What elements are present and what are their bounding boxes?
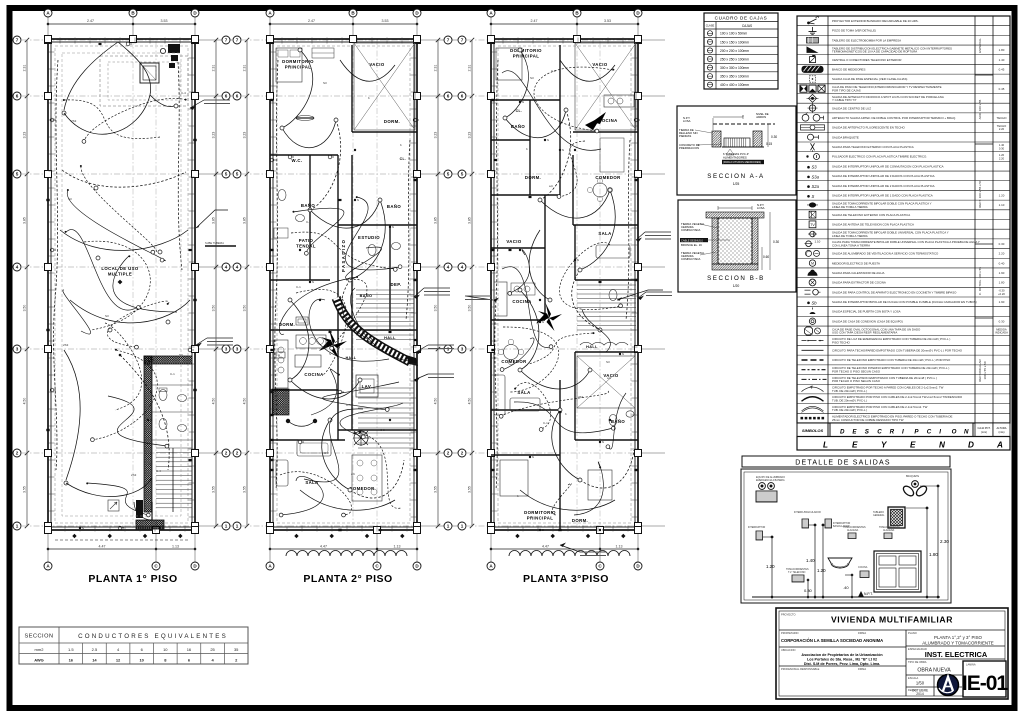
switch symbol (354, 199, 356, 201)
dining table plan2 (352, 455, 382, 501)
svg-text:CAJA POT.: CAJA POT. (978, 426, 991, 430)
mid-left grid bubbles (222, 36, 230, 44)
stair treads plan3 (577, 284, 636, 286)
svg-text:PROFESIONAL RESPONSABLE: PROFESIONAL RESPONSABLE (781, 667, 820, 671)
callout black arrow p3 (592, 112, 606, 124)
svg-text:3.53: 3.53 (161, 19, 168, 23)
stair treads plan2 lower (358, 387, 414, 389)
svg-text:0.45: 0.45 (999, 67, 1005, 71)
svg-text:C-2: C-2 (551, 69, 556, 73)
svg-text:I: I (902, 429, 904, 436)
svg-text:POR TECHO O PISO SEGUN CASO: POR TECHO O PISO SEGUN CASO (832, 379, 881, 383)
wire (332, 279, 367, 348)
svg-text:C: C (927, 429, 932, 436)
svg-text:LAMINA: LAMINA (966, 663, 976, 667)
svg-text:2.47: 2.47 (308, 19, 315, 23)
svg-text:0.15: 0.15 (766, 142, 772, 146)
lavatorio fixture (828, 558, 852, 568)
svg-text:3: 3 (447, 347, 450, 352)
svg-text:1.13: 1.13 (394, 545, 401, 549)
node (549, 345, 553, 349)
svg-text:BANCO DE MEDIDORES: BANCO DE MEDIDORES (832, 67, 865, 71)
exterior wall outline (270, 39, 417, 530)
wall lamp symbol (188, 348, 192, 352)
svg-text:VACIO: VACIO (506, 239, 522, 244)
dimension line top (48, 23, 195, 25)
legend row 31 bell (797, 315, 1010, 317)
wall lamp symbol (328, 155, 332, 159)
grid column axis (599, 39, 601, 530)
switch symbol (619, 353, 621, 355)
svg-text:USO CON TAPA CIEGA RESP. REGLA: USO CON TAPA CIEGA RESP. REGLAMENTARIA (832, 331, 897, 335)
svg-text:10: 10 (163, 647, 168, 652)
svg-text:S3a: S3a (812, 174, 820, 179)
junction dot (338, 374, 340, 376)
node (64, 481, 68, 485)
svg-text:SECCION B-B: SECCION B-B (707, 275, 765, 282)
svg-text:SALIDA PARA EXTRACTOR DE COCIN: SALIDA PARA EXTRACTOR DE COCINA (832, 281, 886, 285)
wire (515, 383, 551, 429)
wc fixtures plan2 (278, 190, 286, 201)
wire (495, 60, 498, 490)
callout note p2 right b (416, 345, 428, 352)
wire (503, 327, 559, 392)
node (304, 251, 308, 255)
svg-text:LOSA: LOSA (683, 119, 691, 123)
node (538, 198, 542, 202)
svg-text:4.50: 4.50 (243, 398, 247, 405)
svg-text:4: 4 (225, 265, 228, 270)
svg-text:1: 1 (225, 524, 228, 529)
title block outer (776, 608, 1008, 699)
wire (300, 490, 395, 510)
node (280, 126, 284, 130)
svg-text:EMERGENCIA A BATERIA: EMERGENCIA A BATERIA (756, 479, 785, 482)
braquete fixture (912, 481, 919, 488)
junction dot (612, 69, 614, 71)
beds plan3 bottom (500, 460, 528, 496)
svg-text:2.30: 2.30 (940, 539, 949, 544)
svg-text:3.55: 3.55 (434, 486, 438, 493)
switch symbol (599, 529, 601, 531)
svg-text:D: D (840, 429, 845, 436)
svg-text:VIVIENDA MULTIFAMILIAR: VIVIENDA MULTIFAMILIAR (831, 615, 953, 625)
svg-text:2S3: 2S3 (578, 395, 584, 399)
svg-text:PROYECTOR EXTERIOR BLINDADO RE: PROYECTOR EXTERIOR BLINDADO RECARGABLE D… (832, 19, 919, 23)
wire (108, 396, 167, 446)
wall lamp symbol (118, 526, 122, 530)
svg-text:4.47: 4.47 (99, 545, 106, 549)
svg-text:16: 16 (187, 647, 192, 652)
stair treads plan2 upper (356, 289, 414, 291)
svg-text:2S3: 2S3 (131, 473, 137, 477)
svg-text:25: 25 (210, 647, 215, 652)
svg-text:CENTRAL O CONECTORES TELEFONO: CENTRAL O CONECTORES TELEFONO EXTERIOR (832, 58, 902, 62)
svg-text:FIRMA: FIRMA (858, 631, 866, 635)
grid row axis 2 (467, 452, 638, 454)
legend row 11 2circ (797, 122, 1010, 124)
wire (293, 208, 344, 253)
wire (310, 120, 341, 210)
svg-text:3.55: 3.55 (243, 486, 247, 493)
svg-text:N: N (964, 429, 969, 436)
svg-text:10: 10 (139, 658, 144, 663)
legend row 26 med (797, 267, 1010, 269)
svg-text:1: 1 (16, 524, 19, 529)
svg-text:TUB. DE 20mmØ ( PVC-L ): TUB. DE 20mmØ ( PVC-L ) (832, 408, 867, 412)
node (578, 268, 582, 272)
svg-text:1.10: 1.10 (815, 240, 821, 244)
svg-text:S: S (522, 100, 524, 104)
svg-text:Asociacion de Propietarios de: Asociacion de Propietarios de la Urbaniz… (801, 653, 883, 657)
svg-text:2S3: 2S3 (71, 119, 77, 123)
svg-text:4: 4 (461, 265, 464, 270)
grid bubble A bottom (266, 562, 274, 570)
callout note p3 right a (636, 232, 645, 240)
legend row 37 ltel2 (797, 374, 1010, 376)
svg-text:AWG: AWG (34, 658, 44, 663)
legend simbolos header (797, 423, 828, 437)
legend row 29 ctrl (797, 296, 1010, 298)
svg-text:BAÑO: BAÑO (611, 419, 626, 424)
svg-text:SUBE TUBERIA: SUBE TUBERIA (205, 241, 224, 245)
legend row 24 tomh (797, 248, 1010, 250)
seccion B-B detail (678, 200, 796, 292)
svg-text:1.13: 1.13 (172, 545, 179, 549)
svg-text:S3: S3 (530, 76, 534, 80)
wire (580, 190, 615, 270)
svg-text:JARDIN: JARDIN (756, 115, 766, 119)
wire (282, 50, 313, 128)
svg-text:MEDIDA: MEDIDA (996, 327, 1007, 331)
wall window ticks (271, 51, 277, 53)
node (518, 288, 522, 292)
grid column axis (576, 39, 578, 530)
grid row axis 3 (242, 348, 417, 350)
node (82, 140, 86, 144)
legend row 22 tv (797, 228, 1010, 230)
svg-text:+0.20: +0.20 (998, 292, 1005, 296)
svg-text:S3: S3 (606, 360, 610, 364)
grid axis line (269, 17, 271, 39)
switch symbol (599, 441, 601, 443)
svg-text:MEDIDOR ELECTRICO DE PUESTA: MEDIDOR ELECTRICO DE PUESTA (832, 261, 880, 265)
svg-text:2.31: 2.31 (468, 65, 472, 72)
svg-text:1.20: 1.20 (999, 193, 1005, 197)
svg-text:ESCALA: ESCALA (908, 676, 919, 680)
node (611, 426, 615, 430)
wire (574, 462, 603, 515)
proyector switch (825, 519, 832, 528)
svg-text:SALIDA DE ARTEFACTO FLUORESCEN: SALIDA DE ARTEFACTO FLUORESCENTE EN TECH… (832, 126, 906, 130)
svg-text:3.50: 3.50 (434, 305, 438, 312)
grid row axis 4 (467, 266, 638, 268)
node (558, 408, 562, 412)
dimension line bottom (491, 548, 638, 550)
bath fixtures plan3 (609, 415, 617, 426)
wire (64, 100, 160, 139)
wire (304, 409, 363, 482)
svg-text:2.31: 2.31 (23, 65, 27, 72)
wire (342, 280, 370, 340)
svg-text:CLASE: CLASE (706, 24, 715, 28)
toilet plan3 (609, 290, 617, 301)
grid row axis 7 (242, 39, 417, 41)
outlet (491, 349, 494, 351)
callout note p3 left (465, 296, 493, 300)
grid bubble D top (191, 9, 199, 17)
legend leyenda title (797, 437, 1010, 451)
svg-text:2014: 2014 (916, 692, 924, 696)
wire (62, 170, 186, 187)
node (288, 298, 292, 302)
node (588, 368, 592, 372)
svg-text:FIRMA: FIRMA (858, 667, 866, 671)
switch symbol (359, 431, 361, 433)
grid axis line (576, 17, 578, 39)
wire (502, 267, 551, 348)
svg-text:7: 7 (447, 38, 450, 43)
outlet (413, 279, 416, 281)
svg-text:.40: .40 (843, 585, 849, 590)
dim chain between plans 2-3 (437, 40, 439, 526)
node (508, 291, 512, 295)
grid row axis 5 (22, 173, 195, 175)
node (548, 298, 552, 302)
floor outlet markers below plan (515, 534, 519, 538)
svg-text:POR TIPO DE CAJAS: POR TIPO DE CAJAS (832, 88, 861, 92)
svg-text:100 x 100 x 50mm: 100 x 100 x 50mm (720, 32, 747, 36)
kitchen counter plan3 (604, 95, 634, 107)
dimension line bottom (270, 548, 417, 550)
emergency light fixture (759, 483, 766, 490)
legend row 2 gnd (797, 34, 1010, 36)
toilet fixture 2 (159, 419, 167, 430)
svg-text:2S3: 2S3 (63, 343, 69, 347)
grid bubble D top (413, 9, 421, 17)
svg-text:POZO DE TOMA (VER DETALLE): POZO DE TOMA (VER DETALLE) (832, 29, 876, 33)
svg-text:BAÑO: BAÑO (387, 204, 402, 209)
outlet symbol (509, 249, 512, 251)
wire (105, 323, 142, 410)
vacio box plan3 mid (577, 356, 635, 408)
svg-text:3.50: 3.50 (23, 305, 27, 312)
svg-text:S: S (602, 440, 604, 444)
dining plan3 (593, 183, 607, 197)
svg-text:mm2: mm2 (35, 647, 45, 652)
svg-text:ALTURA: ALTURA (996, 426, 1006, 430)
outlet (491, 249, 494, 251)
grid axis line (490, 17, 492, 39)
wire (290, 380, 360, 399)
wire (282, 120, 336, 148)
svg-text:SALIDA PARA CALENTADOR DE AGUA: SALIDA PARA CALENTADOR DE AGUA (832, 271, 884, 275)
svg-text:Los Portales de Sta. Rosa , Mz: Los Portales de Sta. Rosa , Mz "B" Lt 02 (807, 658, 877, 662)
svg-text:2: 2 (16, 451, 19, 456)
wire (502, 338, 534, 370)
outlet (270, 349, 273, 351)
stair arc plan3 (580, 342, 628, 345)
wall window ticks top-bottom (502, 38, 504, 44)
svg-text:SALIDA DE INTERRUPTOR BIPOLAR: SALIDA DE INTERRUPTOR BIPOLAR DE DUCHA C… (832, 300, 977, 304)
svg-text:E: E (852, 441, 858, 450)
svg-text:1.90: 1.90 (999, 300, 1005, 304)
wire (64, 42, 118, 110)
grid column axis (352, 39, 354, 530)
svg-text:SALIDA BRAQUETE: SALIDA BRAQUETE (832, 135, 859, 139)
svg-text:CORPORACIÓN LA SEMILLA SOCIEDA: CORPORACIÓN LA SEMILLA SOCIEDAD ANONIMA (781, 638, 883, 643)
grid column axis (47, 39, 49, 530)
svg-text:COCINA: COCINA (512, 299, 531, 304)
svg-text:3.50: 3.50 (243, 305, 247, 312)
switch symbol (79, 527, 81, 529)
wire (63, 290, 91, 334)
grid row axis 4 (22, 266, 195, 268)
svg-text:5: 5 (461, 172, 464, 177)
wire (346, 247, 382, 279)
svg-text:4.47: 4.47 (542, 545, 549, 549)
wire (351, 288, 408, 361)
mid2-right grid bubbles (458, 36, 466, 44)
floor arrow (858, 591, 864, 597)
svg-text:RECTANGULAR: RECTANGULAR (978, 358, 982, 381)
svg-text:Dist. S.M de Porres, Prov. Lim: Dist. S.M de Porres, Prov. Lima, Dpto. L… (804, 662, 880, 666)
svg-text:S3: S3 (68, 197, 72, 201)
node (557, 195, 561, 199)
svg-text:COMEDOR: COMEDOR (595, 175, 621, 180)
svg-text:6: 6 (461, 94, 464, 99)
legend row 1 proj (797, 25, 1010, 27)
grid axis line (132, 17, 134, 39)
tomacorriente alacena (848, 533, 856, 539)
wire (559, 141, 585, 197)
svg-text:4.50: 4.50 (212, 398, 216, 405)
legend row 32 ccaja (797, 325, 1010, 327)
grid bubble C bottom (596, 562, 604, 570)
svg-text:2: 2 (461, 451, 464, 456)
svg-text:S: S (312, 280, 314, 284)
node (135, 345, 139, 349)
svg-text:C-1: C-1 (170, 372, 175, 376)
svg-text:POR TECHO O PISO SEGUN CASO: POR TECHO O PISO SEGUN CASO (832, 369, 881, 373)
node (334, 118, 338, 122)
svg-text:(mm): (mm) (981, 430, 987, 434)
svg-text:S3: S3 (105, 314, 109, 318)
svg-text:1.10: 1.10 (999, 203, 1005, 207)
outlet symbol (189, 249, 192, 251)
bed plan3 top (496, 48, 522, 80)
junction dots plan2 (319, 299, 321, 301)
legend row 38 ltv (797, 383, 1010, 385)
starburst distribution board p3 (536, 303, 562, 331)
svg-text:3.50: 3.50 (468, 305, 472, 312)
svg-text:D: D (968, 441, 974, 450)
grid column axis (155, 39, 157, 530)
svg-text:4.50: 4.50 (23, 398, 27, 405)
wire (350, 200, 385, 280)
svg-text:L: L (823, 441, 828, 450)
node (165, 444, 169, 448)
svg-text:ALACENA: ALACENA (883, 529, 895, 532)
wire (540, 190, 610, 218)
grid row axis 6 (242, 95, 417, 97)
svg-text:5: 5 (16, 172, 19, 177)
svg-text:PLANTA 1°,2° y 3° PISO: PLANTA 1°,2° y 3° PISO (934, 635, 982, 640)
wire (560, 60, 615, 81)
svg-text:a,b: a,b (549, 184, 554, 188)
floor outlet markers below plan (294, 534, 298, 538)
svg-text:CAJAS: CAJAS (742, 24, 752, 28)
svg-text:INTERRUPTOR: INTERRUPTOR (748, 526, 765, 529)
svg-text:3.55: 3.55 (468, 486, 472, 493)
svg-text:TENDAL: TENDAL (296, 243, 316, 248)
ceiling fan circled star plan2 (354, 431, 368, 445)
svg-text:TV: TV (810, 223, 815, 227)
kitchen counter plan3 mid (494, 282, 507, 316)
svg-text:0.40: 0.40 (999, 261, 1005, 265)
detalle title box (742, 456, 950, 467)
svg-text:DORMITORIO: DORMITORIO (510, 48, 542, 53)
svg-text:(mts): (mts) (999, 430, 1005, 434)
svg-text:1: 1 (236, 524, 239, 529)
node (308, 208, 312, 212)
grid axis line (416, 17, 418, 39)
detalle content box (741, 469, 951, 603)
grid row axis 5 (242, 173, 417, 175)
legend group column (975, 74, 993, 76)
svg-text:5: 5 (447, 172, 450, 177)
svg-text:400 x 400 x 100mm: 400 x 400 x 100mm (720, 83, 749, 87)
grid bubble A bottom (487, 562, 495, 570)
svg-text:S: S (542, 528, 544, 532)
legend row 10 clamp (797, 112, 1010, 114)
svg-text:SECCION: SECCION (25, 634, 54, 640)
svg-text:4: 4 (447, 265, 450, 270)
leader arrow plan3 right (617, 290, 663, 300)
dashed line under plan1 (55, 539, 190, 541)
leader arrow right top (196, 210, 228, 228)
hatched block left wall (272, 389, 289, 415)
outlet symbol (189, 459, 192, 461)
wire (340, 403, 403, 437)
legend row 5 flag (797, 63, 1010, 65)
node (348, 488, 352, 492)
table plan2 (295, 355, 321, 367)
wire (520, 490, 615, 510)
junction dot (167, 303, 169, 305)
svg-text:CABLE DESNUDO: CABLE DESNUDO (681, 238, 703, 242)
wire (92, 350, 157, 440)
switch symbol (147, 419, 149, 421)
svg-text:N.P.T.: N.P.T. (864, 592, 873, 596)
tomacorriente jardin (884, 533, 892, 539)
hatched wall vertical band (144, 356, 152, 512)
interruptor bascul (802, 519, 809, 528)
grid row axis 7 (22, 39, 195, 41)
grid row axis 7 (467, 39, 638, 41)
svg-text:14: 14 (92, 658, 97, 663)
wire (64, 42, 151, 134)
svg-text:CIRCUITO PARA TECHO/PARED EMPO: CIRCUITO PARA TECHO/PARED EMPOTRADO CON … (832, 349, 963, 353)
grid row axis 3 (467, 348, 638, 350)
node (595, 129, 599, 133)
wire (552, 410, 580, 480)
svg-text:2.31: 2.31 (212, 65, 216, 72)
node (385, 408, 389, 412)
grid column axis (132, 39, 134, 530)
wire (559, 242, 621, 309)
dim 1.20 left (771, 537, 773, 597)
